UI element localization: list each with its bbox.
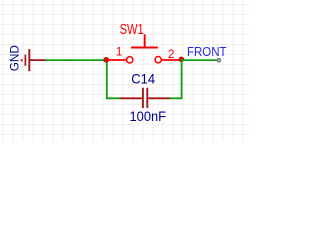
capacitor C14 right plate [146, 88, 148, 108]
capacitor C14 right lead [148, 97, 170, 99]
switch SW1 actuator stub [144, 34, 146, 47]
svg-text:2: 2 [168, 47, 175, 61]
svg-text:1: 1 [116, 45, 123, 59]
pin 2 lead [162, 59, 181, 61]
pin 2 circle [155, 57, 161, 63]
junction node at pin 1 [103, 57, 109, 63]
switch SW1 contact bar [131, 47, 158, 49]
svg-text:GND: GND [7, 45, 21, 71]
capacitor C14 left lead [120, 97, 142, 99]
ground GND symbol [22, 49, 46, 71]
wire pin 2 to FRONT [181, 59, 217, 61]
svg-text:100nF: 100nF [130, 109, 167, 124]
wire left branch down to capacitor [107, 60, 120, 98]
wire right branch down to capacitor [169, 60, 181, 99]
wire GND to pin 1 [45, 59, 107, 61]
svg-text:FRONT: FRONT [187, 44, 227, 59]
pin 1 circle [127, 57, 133, 63]
pin 1 lead [107, 59, 126, 61]
svg-text:SW1: SW1 [120, 21, 144, 38]
net connector dot FRONT [217, 58, 221, 62]
svg-text:C14: C14 [131, 71, 155, 87]
junction node at pin 2 [179, 57, 185, 63]
capacitor C14 left plate [142, 88, 144, 108]
